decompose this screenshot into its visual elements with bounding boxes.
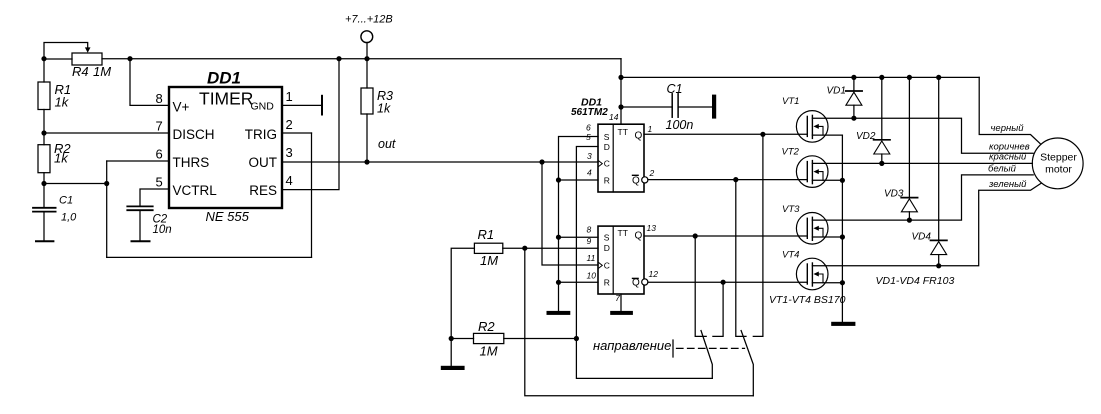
wire: C2 bottom lead (139, 211, 141, 241)
wire: R2 bottom to C1 (43, 173, 45, 208)
svg-text:RES: RES (249, 183, 277, 198)
wire: TRIG riser up (311, 133, 313, 257)
svg-text:GND: GND (251, 101, 275, 113)
resistor R1 body (1M) (474, 243, 502, 253)
junction: Q-bar2 line / switch prong (721, 280, 726, 285)
junction: source bus / VT2 source (840, 178, 845, 183)
junction: diode rail / VD4 (936, 75, 941, 80)
wire: V+ pin8 riser (130, 59, 169, 106)
junction: OUT line / R3 bottom (364, 159, 369, 164)
diode VD2 (FR103) (874, 77, 890, 163)
wire: supply rail to black motor lead (979, 77, 1040, 143)
wire: RES pin4 to supply rail (282, 59, 339, 190)
junction: left rail / R4 (41, 56, 46, 61)
junction: rail corner / diode rail (618, 75, 623, 80)
svg-text:1M: 1M (480, 253, 498, 268)
wire: D1 feedback bus to R2 1M (576, 147, 712, 379)
junction: R1/R2 1M left legs (449, 336, 454, 341)
clock triangle FF2 pin11 (599, 263, 603, 268)
junction: R1 1M right / D2 bus (522, 246, 527, 251)
wire: R2 1M left stub (451, 338, 473, 340)
svg-text:VT2: VT2 (782, 147, 800, 158)
ground bar under C2 (132, 240, 150, 242)
svg-text:черный: черный (991, 123, 1025, 134)
overline for FF2 Q-bar (632, 277, 639, 279)
wire: FF1 R pin4 stub (559, 179, 599, 181)
svg-text:7: 7 (156, 118, 163, 133)
wire: R1 bottom to R2 top (43, 110, 45, 145)
svg-text:VD2: VD2 (856, 131, 876, 142)
diode VD3 (FR103) (901, 77, 917, 220)
svg-text:зеленый: зеленый (988, 179, 1027, 190)
wire: THRS-TRIG bottom run (107, 256, 312, 258)
svg-text:motor: motor (1045, 163, 1072, 175)
svg-text:TRIG: TRIG (245, 127, 277, 142)
resistor R3 body (1k) (361, 88, 373, 114)
svg-text:R: R (604, 278, 610, 288)
diode VD1 (FR103) (846, 77, 862, 118)
svg-text:R: R (604, 176, 610, 186)
capacitor C3: C1 100n plates (671, 94, 673, 117)
svg-text:1: 1 (286, 89, 293, 104)
svg-text:VD1: VD1 (827, 86, 846, 97)
svg-text:VT1: VT1 (782, 96, 799, 107)
inversion bubble FF2 Q-bar (642, 279, 648, 285)
svg-text:OUT: OUT (249, 155, 278, 170)
wire: pin14 node to C1 100n (621, 106, 672, 108)
svg-text:Stepper: Stepper (1040, 151, 1077, 163)
junction: pin14 / C1 100n (618, 104, 623, 109)
wire: R1 1M left leg (451, 248, 474, 366)
junction: rail / R4 right riser (127, 56, 132, 61)
svg-text:13: 13 (647, 223, 657, 233)
ground bar under R1/R2 1M (441, 366, 465, 370)
junction: S/R bus / FF1 R (556, 177, 561, 182)
wire: rail to R3 top (366, 59, 368, 88)
junction: VT2 drain / VD2 anode (879, 161, 884, 166)
wire: left rail top segment (43, 59, 45, 82)
svg-text:1M: 1M (480, 344, 498, 359)
wire: R1 1M right to FF2 D pin9 (503, 247, 598, 249)
svg-text:VD3: VD3 (884, 189, 904, 200)
wire: VT1 drain line to brown riser (812, 118, 1033, 153)
svg-text:2: 2 (286, 117, 293, 132)
svg-text:4: 4 (286, 173, 293, 188)
wire: +V supply rail horizontal (130, 58, 621, 60)
svg-text:D: D (604, 142, 610, 152)
resistor R2 body (1M) (474, 333, 504, 343)
svg-text:VCTRL: VCTRL (173, 183, 218, 198)
svg-text:Q: Q (635, 231, 643, 242)
svg-text:1k: 1k (54, 151, 69, 166)
svg-text:S: S (604, 132, 610, 142)
flip-flop U2: 561TM2 first D flip-flop box (598, 124, 644, 192)
svg-text:+7...+12В: +7...+12В (345, 14, 393, 26)
wire: diode/drain top rail (621, 76, 979, 78)
wire: S/R ground bus (559, 137, 599, 311)
svg-text:DISCH: DISCH (173, 127, 215, 142)
svg-text:11: 11 (587, 253, 596, 263)
svg-text:S: S (604, 232, 610, 242)
ground bar at C1 100n (712, 95, 716, 119)
overline for FF1 Q-bar (632, 174, 639, 176)
svg-text:VT3: VT3 (782, 204, 800, 215)
junction: left rail / DISCH (41, 130, 46, 135)
wire: GND pin1 stub (282, 104, 322, 106)
capacitor C1 plates (1,0) (33, 207, 56, 209)
ground bar under C1 (36, 240, 53, 242)
transistor VT1 (BS170) (796, 111, 842, 143)
wire: Q1 pin1 to VT1 gate (644, 133, 807, 135)
wire: TRIG pin2 (282, 132, 312, 134)
svg-text:C: C (604, 260, 610, 270)
switch SA2 contact prong from Q-bar1 (736, 180, 746, 337)
transistor VT4 (BS170) (796, 258, 842, 290)
svg-text:направление: направление (593, 338, 671, 353)
svg-text:белый: белый (988, 163, 1017, 174)
resistor R2 body (1k) (38, 145, 50, 173)
resistor R1 body (1k) (38, 82, 50, 110)
arrowhead: R4 wiper (85, 47, 91, 52)
svg-text:R4: R4 (72, 64, 89, 79)
wire: source ground bus (841, 135, 843, 322)
svg-text:VD1-VD4 FR103: VD1-VD4 FR103 (876, 275, 955, 287)
svg-text:8: 8 (587, 225, 592, 235)
junction: rail / supply terminal / R3 (364, 56, 369, 61)
svg-text:TT: TT (618, 127, 628, 137)
svg-text:6: 6 (586, 123, 591, 133)
svg-text:8: 8 (156, 91, 163, 106)
switch SA2 contact prong from Q1 (753, 134, 763, 336)
junction: rail / RES riser (336, 56, 341, 61)
svg-text:5: 5 (586, 132, 591, 142)
junction: VT4 drain / VD4 anode (936, 263, 941, 268)
direction label link bar (672, 340, 674, 357)
wire: Q-bar2 pin12 to VT4 gate (648, 281, 807, 283)
transistor VT2 (BS170) (796, 156, 842, 188)
svg-text:Q: Q (635, 130, 643, 141)
junction: Q1 line / switch prong (760, 132, 765, 137)
junction: Q2 line / switch prong (693, 233, 698, 238)
svg-text:10n: 10n (153, 224, 172, 236)
svg-text:3: 3 (286, 145, 293, 160)
svg-text:4: 4 (587, 167, 592, 177)
switch SA1 contact prong from Q2 (695, 236, 706, 336)
svg-text:TT: TT (618, 228, 628, 238)
transistor VT3 (BS170) (796, 213, 842, 245)
wire: R2 1M right to D1 bus (504, 338, 577, 340)
op-amp U1: NE555 timer DD1 box (169, 87, 282, 208)
svg-text:5: 5 (156, 175, 163, 190)
svg-text:R2: R2 (478, 319, 495, 334)
dashed mechanical link line (677, 347, 745, 349)
switch SA2 lever (741, 331, 753, 396)
wire: left rail to R4 left terminal (44, 58, 72, 60)
diode VD4 (FR103) (931, 77, 947, 265)
wire: D2 bus down to direction switch (525, 248, 754, 396)
junction: diode rail / VD3 (907, 75, 912, 80)
svg-text:14: 14 (609, 112, 619, 122)
svg-text:1,0: 1,0 (61, 212, 77, 224)
ground bar S/R bus (547, 311, 571, 315)
junction: Q-bar1 line / switch prong (733, 177, 738, 182)
junction: diode rail / VD2 (879, 75, 884, 80)
svg-text:VT1-VT4 BS170: VT1-VT4 BS170 (769, 294, 846, 306)
junction: OUT line / clock bus (539, 159, 544, 164)
svg-text:Q: Q (632, 175, 640, 186)
ground bar under source bus (831, 322, 855, 326)
wire: supply rail corner down to DD1 pin14 (620, 59, 622, 125)
ground bar at pin1 (321, 96, 323, 115)
svg-text:6: 6 (156, 147, 163, 162)
supply terminal circle +7...+12V (361, 31, 373, 43)
svg-text:красный: красный (989, 152, 1027, 163)
wire: C1 bottom lead (43, 212, 45, 241)
junction: S/R bus / FF2 R (556, 280, 561, 285)
switch SA1 lever (701, 331, 712, 379)
svg-text:1k: 1k (55, 95, 70, 110)
potentiometer R4 body (72, 53, 102, 65)
wire: R4 right terminal to supply rail (102, 58, 130, 60)
junction: VT1 drain / VD1 anode (851, 116, 856, 121)
svg-text:7: 7 (615, 293, 620, 303)
junction: source bus / VT4 source (840, 280, 845, 285)
svg-text:1: 1 (648, 124, 653, 134)
svg-text:12: 12 (649, 269, 659, 279)
svg-text:TIMER: TIMER (199, 89, 253, 109)
junction: S/R bus / FF2 S (556, 235, 561, 240)
svg-text:THRS: THRS (173, 155, 210, 170)
wire: OUT pin3 line to flip-flop clock (282, 161, 598, 163)
switch SA1 contact prong from Q-bar2 (713, 282, 723, 336)
wire: VCTRL pin5 to C2 (140, 189, 169, 206)
svg-text:3: 3 (587, 151, 592, 161)
svg-text:VD4: VD4 (912, 232, 932, 243)
junction: VT3 drain / VD3 anode (907, 218, 912, 223)
svg-text:561ТМ2: 561ТМ2 (571, 107, 608, 118)
wire: FF2 pin7 ground stub (620, 294, 622, 311)
wire: Q-bar1 pin2 to VT2 gate (648, 179, 807, 181)
wire: C1 100n right lead (678, 106, 712, 108)
wire: FF2 S pin8 stub (559, 236, 599, 238)
junction: R2 1M right / D1 bus (574, 336, 579, 341)
svg-text:R1: R1 (478, 227, 495, 242)
svg-text:1M: 1M (93, 64, 111, 79)
capacitor C2 plates (10n) (127, 205, 152, 207)
motor M1: stepper motor circle (1032, 138, 1083, 189)
svg-text:NE 555: NE 555 (206, 209, 250, 224)
junction: THRS riser / R2-C1 node (104, 181, 109, 186)
svg-text:9: 9 (587, 236, 592, 246)
svg-text:10: 10 (587, 271, 597, 281)
svg-text:1k: 1k (377, 102, 391, 116)
svg-text:DD1: DD1 (207, 69, 241, 88)
junction: left rail / C1 / THRS link (41, 181, 46, 186)
wire: supply terminal to rail (366, 43, 368, 59)
svg-text:C1: C1 (59, 195, 73, 207)
junction: diode rail / VD1 (851, 75, 856, 80)
wire: R3 bottom to OUT line (366, 114, 368, 162)
wire: Q2 pin13 to VT3 gate (644, 235, 807, 237)
wire: R4 wiper loop (44, 43, 88, 59)
svg-text:C: C (604, 159, 610, 169)
wire: clock bus OUT to FF2 pin11 (542, 162, 598, 265)
svg-text:VT4: VT4 (782, 250, 799, 261)
svg-text:D: D (604, 243, 610, 253)
wire: VT4 drain line to green riser (812, 183, 1041, 266)
inversion bubble FF1 Q-bar (642, 177, 648, 183)
ground bar at FF2 pin7 (610, 311, 633, 315)
clock triangle FF1 pin3 (599, 161, 603, 166)
junction: source bus / VT3 source (840, 234, 845, 239)
svg-text:out: out (378, 137, 396, 151)
wire: THRS pin6 left run (107, 160, 169, 162)
svg-text:C1: C1 (667, 82, 683, 96)
wire: THRS riser down (106, 161, 108, 257)
wire: R2/C1 node to THRS riser (44, 183, 107, 185)
svg-text:100n: 100n (666, 118, 694, 132)
svg-text:V+: V+ (173, 100, 190, 115)
wire: VT2 drain line (red) to motor (812, 162, 1032, 164)
wire: DISCH pin7 to left rail (44, 132, 169, 134)
svg-text:2: 2 (649, 168, 655, 178)
wire: VT3 drain line to white riser (812, 175, 1033, 220)
wire: FF2 R pin10 stub (559, 281, 599, 283)
flip-flop U3: 561TM2 second D flip-flop box (598, 226, 644, 294)
